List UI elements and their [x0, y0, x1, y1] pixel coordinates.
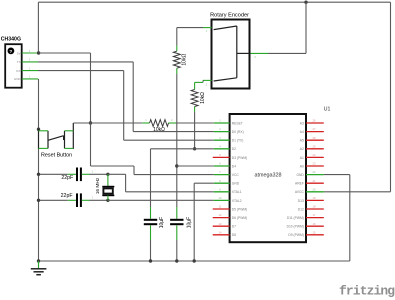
svg-text:A1: A1	[300, 156, 304, 160]
pin 24 A1 right	[300, 153, 324, 160]
svg-text:2: 2	[92, 195, 94, 199]
svg-text:26: 26	[313, 119, 316, 123]
svg-text:21: 21	[313, 179, 316, 183]
resistor R2 10k encoder A	[173, 46, 187, 74]
node crystal top junction	[106, 173, 109, 176]
node RESET net 4-way junction	[89, 121, 92, 124]
svg-text:2: 2	[92, 169, 94, 173]
svg-text:15: 15	[313, 230, 316, 234]
svg-text:D3 (PWM): D3 (PWM)	[232, 156, 247, 160]
svg-text:1: 1	[145, 118, 147, 122]
pin 22 GND right	[296, 170, 323, 177]
wire 5V pin to VCC net	[39, 53, 91, 123]
resistor R3 10k encoder B	[191, 82, 206, 112]
wire R3 to D2 net	[194, 112, 196, 149]
wire TX to D0	[38, 62, 214, 132]
crystal Y1 16 MHz	[95, 174, 115, 200]
wire RX to D1	[38, 71, 214, 141]
pin 8 GND left	[214, 179, 240, 186]
svg-text:A0: A0	[300, 164, 304, 168]
pin 15 D9 (PWM) right	[288, 230, 323, 237]
svg-text:10µF: 10µF	[159, 217, 165, 229]
svg-text:D6 (PWM): D6 (PWM)	[232, 216, 247, 220]
pin 25 A2 right	[300, 144, 324, 151]
node button left junction	[37, 128, 40, 131]
svg-text:D10 (PWM): D10 (PWM)	[287, 225, 304, 229]
wire D4	[177, 165, 214, 167]
svg-text:?: ?	[9, 49, 12, 55]
svg-text:atmega328: atmega328	[255, 172, 282, 178]
svg-text:5V: 5V	[17, 51, 21, 55]
ground symbol	[31, 261, 47, 275]
wire CH340G GND down	[38, 79, 40, 129]
svg-text:16: 16	[313, 222, 316, 226]
svg-text:A3: A3	[300, 121, 304, 125]
pin 6 D4 left	[214, 162, 236, 169]
svg-text:3: 3	[254, 55, 256, 59]
node 5V pin junction	[37, 51, 40, 54]
node bus junctions	[37, 259, 196, 262]
capacitor C3 10uF	[144, 207, 165, 261]
pin 11 D5 (PWM) left	[213, 205, 247, 212]
svg-text:19: 19	[313, 196, 316, 200]
pin 17 D11 (PWM) right	[287, 213, 324, 220]
svg-text:22pF: 22pF	[61, 193, 73, 199]
svg-text:1: 1	[206, 29, 208, 33]
svg-text:Reset Button: Reset Button	[41, 153, 72, 159]
svg-text:VCC: VCC	[232, 173, 240, 177]
svg-text:A4: A4	[300, 130, 304, 134]
svg-text:4: 4	[219, 144, 221, 148]
wire resistor to RESET pin	[176, 122, 214, 124]
pin 9 XTAL1 left	[214, 187, 242, 194]
svg-text:17: 17	[313, 213, 316, 217]
svg-text:RX: RX	[16, 69, 20, 73]
svg-text:2: 2	[219, 127, 221, 131]
wire chip GND to bus	[194, 183, 214, 261]
wire VCC feed	[91, 123, 214, 175]
svg-text:XTAL2: XTAL2	[232, 199, 242, 203]
svg-text:D1 (TX): D1 (TX)	[232, 139, 244, 143]
svg-text:D2: D2	[232, 147, 236, 151]
component CH340G U2	[1, 37, 38, 88]
svg-text:8: 8	[219, 179, 221, 183]
pushbutton Reset Button	[39, 123, 74, 159]
svg-text:1: 1	[29, 75, 31, 79]
pin 28 A5 right	[300, 136, 324, 143]
svg-text:23: 23	[313, 162, 316, 166]
svg-text:AVCC: AVCC	[295, 190, 305, 194]
svg-text:1: 1	[219, 119, 221, 123]
svg-text:D8: D8	[232, 233, 236, 237]
svg-text:3: 3	[29, 58, 31, 62]
svg-text:GND: GND	[232, 182, 240, 186]
svg-text:4: 4	[29, 49, 31, 53]
svg-text:28: 28	[313, 136, 316, 140]
svg-text:10kΩ: 10kΩ	[153, 127, 165, 133]
wire XTAL2	[108, 199, 214, 201]
capacitor C4 10uF	[170, 207, 193, 261]
svg-text:D4: D4	[232, 164, 236, 168]
pin 18 D12 right	[298, 205, 324, 212]
wire encoder A pin	[177, 28, 212, 46]
svg-text:20: 20	[313, 187, 316, 191]
capacitor C1 22pF	[39, 168, 108, 182]
svg-text:D0 (RX): D0 (RX)	[232, 130, 244, 134]
pin 27 A4 right	[300, 127, 324, 134]
node crystal bottom junction	[106, 199, 109, 202]
pin 2 D0 (RX) left	[214, 127, 244, 134]
pin 26 A3 right	[300, 119, 324, 126]
wire AVCC to 5V rail	[324, 191, 391, 193]
svg-text:GND: GND	[296, 173, 304, 177]
svg-text:6: 6	[219, 162, 221, 166]
svg-text:25: 25	[313, 144, 316, 148]
wire right GND to bus	[324, 175, 350, 261]
resistor R1 10k RESET pullup	[142, 118, 176, 133]
svg-text:D11 (PWM): D11 (PWM)	[287, 216, 304, 220]
svg-text:A5: A5	[300, 139, 304, 143]
op-amp U1 atmega328 body	[230, 106, 331, 242]
svg-text:U1: U1	[324, 106, 331, 112]
svg-text:fritzing: fritzing	[339, 284, 395, 299]
svg-text:RESET: RESET	[232, 121, 243, 125]
node C2 GND junction	[37, 199, 40, 202]
svg-text:2: 2	[206, 83, 208, 87]
svg-text:D12: D12	[298, 207, 304, 211]
svg-text:10kΩ: 10kΩ	[200, 92, 206, 104]
pin 4 D2 left	[214, 144, 236, 151]
svg-text:TX: TX	[17, 60, 21, 64]
pin 16 D10 (PWM) right	[287, 222, 324, 229]
pin 5 D3 (PWM) left	[213, 153, 247, 160]
pin 19 D13 right	[298, 196, 324, 203]
node D2 junction	[193, 147, 196, 150]
svg-text:5: 5	[219, 153, 221, 157]
svg-text:24: 24	[313, 153, 316, 157]
svg-text:AREF: AREF	[295, 182, 304, 186]
wire encoder common to 5V rail	[250, 2, 306, 53]
svg-text:10kΩ: 10kΩ	[181, 54, 187, 66]
svg-text:10: 10	[219, 196, 222, 200]
wire RESET net to resistor	[91, 122, 143, 124]
pin 13 D7 left	[213, 222, 236, 229]
svg-text:27: 27	[313, 127, 316, 131]
svg-text:10µF: 10µF	[187, 217, 193, 229]
pin 1 RESET left	[214, 119, 243, 126]
pin 20 AVCC right	[295, 187, 324, 194]
svg-text:A2: A2	[300, 147, 304, 151]
svg-text:D5 (PWM): D5 (PWM)	[232, 207, 247, 211]
svg-text:12: 12	[219, 213, 222, 217]
svg-text:22: 22	[313, 170, 316, 174]
pin 12 D6 (PWM) left	[213, 213, 247, 220]
wire button to RESET net	[73, 122, 90, 124]
wire 5V top rail	[38, 2, 390, 192]
svg-text:CH340G: CH340G	[1, 37, 21, 43]
pin 14 D8 left	[213, 230, 236, 237]
svg-text:XTAL1: XTAL1	[232, 190, 242, 194]
svg-text:18: 18	[313, 205, 316, 209]
svg-text:Rotary Encoder: Rotary Encoder	[210, 13, 249, 19]
svg-text:2: 2	[171, 118, 173, 122]
svg-text:3: 3	[219, 136, 221, 140]
wire ground bus	[39, 260, 350, 262]
svg-text:D9 (PWM): D9 (PWM)	[288, 233, 303, 237]
svg-text:7: 7	[219, 170, 221, 174]
wire XTAL1	[108, 174, 214, 192]
svg-text:22pF: 22pF	[61, 175, 73, 181]
capacitor C2 22pF	[39, 193, 108, 207]
wire R2 to D4 node and C4	[176, 74, 178, 207]
pin 23 A0 right	[300, 162, 324, 169]
wire D2 net	[151, 149, 214, 207]
svg-text:2: 2	[29, 66, 31, 70]
wire encoder B pin	[195, 80, 212, 82]
svg-text:GND: GND	[14, 77, 22, 81]
node C1 GND junction	[37, 173, 40, 176]
svg-text:D7: D7	[232, 225, 236, 229]
svg-text:13: 13	[219, 222, 222, 226]
node D4 junction	[175, 164, 178, 167]
pin 10 XTAL2 left	[214, 196, 242, 203]
svg-text:D13: D13	[298, 199, 304, 203]
pin 21 AREF right	[295, 179, 324, 186]
node 5V junction at encoder branch	[304, 1, 307, 4]
svg-text:16 MHz: 16 MHz	[95, 177, 101, 194]
wire GND rail down left	[38, 149, 40, 261]
svg-text:11: 11	[219, 205, 222, 209]
pin 7 VCC left	[214, 170, 240, 177]
svg-text:14: 14	[219, 230, 222, 234]
component Rotary Encoder	[206, 13, 257, 89]
pin 3 D1 (TX) left	[214, 136, 244, 143]
svg-text:9: 9	[219, 187, 221, 191]
